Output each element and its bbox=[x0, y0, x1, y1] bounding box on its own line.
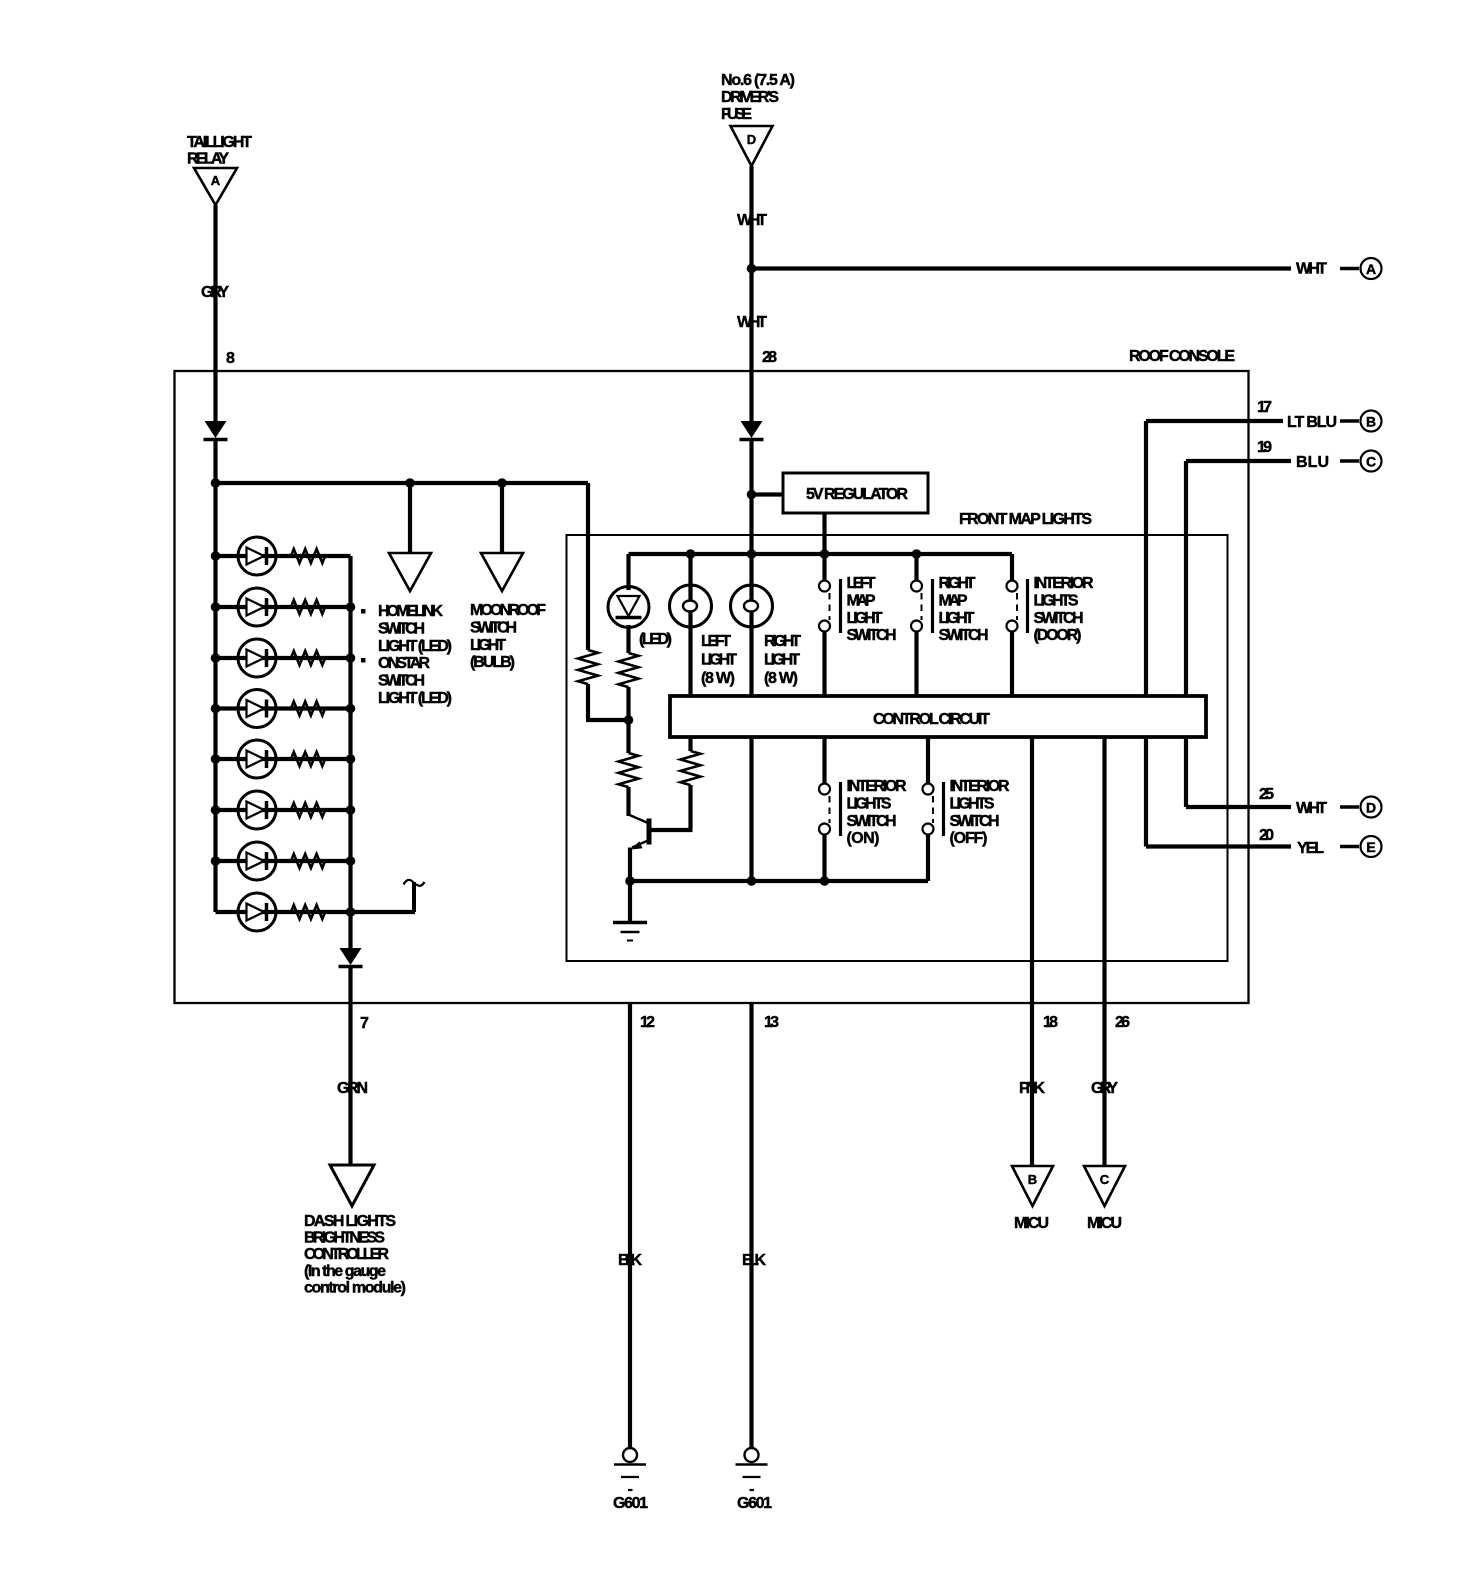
junction right column row 4 bbox=[346, 704, 356, 714]
svg-text:No.6 (7.5 A): No.6 (7.5 A) bbox=[721, 72, 795, 89]
wire resistor to junction bbox=[626, 687, 630, 753]
MICU label B bbox=[1014, 1215, 1049, 1232]
diode above pin 7 bbox=[339, 948, 363, 967]
wire label GRY 26 bbox=[1091, 1080, 1118, 1097]
svg-text:28: 28 bbox=[762, 349, 777, 366]
connector B to MICU bbox=[1012, 1166, 1053, 1206]
svg-text:RELAY: RELAY bbox=[187, 151, 229, 168]
junction emitter/ground bbox=[625, 876, 635, 886]
connector circle A bbox=[1340, 258, 1382, 279]
svg-text:LIGHT: LIGHT bbox=[847, 610, 883, 627]
resistor under LED bbox=[619, 653, 639, 687]
svg-text:20: 20 bbox=[1259, 827, 1274, 844]
wire label YEL bbox=[1297, 840, 1324, 857]
wire A horizontal WHT bbox=[752, 266, 1292, 270]
wire BLK pin 12 to G601 bbox=[628, 1003, 632, 1448]
ground G601 right bbox=[736, 1448, 768, 1490]
svg-text:BLU: BLU bbox=[1296, 454, 1329, 471]
resistor left bulb branch bbox=[681, 751, 701, 785]
LED row 3 wire bbox=[216, 656, 351, 660]
resistor row 7 bbox=[291, 854, 325, 868]
wire WHT fuse down to roof console pin 28 bbox=[749, 166, 753, 422]
wire C horizontal BLU bbox=[1186, 459, 1291, 463]
svg-text:18: 18 bbox=[1043, 1014, 1058, 1031]
junction left column row 7 bbox=[211, 856, 221, 866]
wire ON switch to bus bbox=[822, 835, 826, 882]
interior lights switch door label bbox=[1034, 575, 1094, 644]
junction fuse wire / wire A bbox=[747, 264, 757, 274]
svg-text:8: 8 bbox=[226, 350, 235, 367]
svg-text:MICU: MICU bbox=[1014, 1215, 1049, 1232]
pin 12 label bbox=[640, 1014, 655, 1031]
svg-text:E: E bbox=[1366, 839, 1375, 855]
homelink switch light connector triangle bbox=[389, 553, 431, 591]
LED 4 bbox=[238, 690, 276, 728]
wire C/D vertical bbox=[1184, 461, 1188, 807]
G601 label right bbox=[737, 1495, 772, 1512]
svg-text:ONSTAR: ONSTAR bbox=[378, 655, 430, 672]
svg-text:19: 19 bbox=[1257, 439, 1272, 456]
svg-text:WHT: WHT bbox=[1296, 261, 1327, 278]
wire regulator to bus bbox=[822, 513, 826, 554]
connector circle B bbox=[1340, 411, 1382, 432]
svg-text:GRN: GRN bbox=[337, 1080, 368, 1097]
LED row 4 wire bbox=[216, 706, 351, 710]
driver's fuse label bbox=[721, 72, 795, 123]
interior LED symbol bbox=[608, 587, 649, 628]
wire OFF switch column bbox=[926, 737, 930, 881]
LED row 8 wire bbox=[216, 910, 416, 914]
svg-text:(8 W): (8 W) bbox=[701, 670, 735, 687]
connector circle D bbox=[1340, 797, 1382, 818]
svg-text:17: 17 bbox=[1257, 399, 1272, 416]
wire label GRY bbox=[201, 284, 229, 301]
svg-text:SWITCH: SWITCH bbox=[1034, 610, 1084, 627]
wire LED to resistor bbox=[626, 625, 630, 653]
pin 13 label bbox=[764, 1014, 779, 1031]
right map light switch label bbox=[939, 575, 989, 644]
svg-text:SWITCH: SWITCH bbox=[950, 813, 1000, 830]
wire BLK pin 13 to G601 bbox=[749, 1003, 753, 1448]
junction left column row 2 bbox=[211, 602, 221, 612]
wire left bulb branch bbox=[688, 554, 692, 751]
LED 2 bbox=[238, 588, 276, 626]
left bulb symbol bbox=[670, 585, 712, 627]
ground G601 left bbox=[614, 1448, 646, 1490]
moonroof switch light label bbox=[470, 602, 546, 671]
left light label bbox=[701, 633, 737, 687]
wire fuse diode to front map bus bbox=[749, 441, 753, 554]
wire B/E vertical bbox=[1144, 421, 1148, 847]
junction moonroof tap bbox=[497, 478, 507, 488]
svg-text:B: B bbox=[1366, 414, 1376, 430]
junction left column row 3 bbox=[211, 653, 221, 663]
LED row 5 wire bbox=[216, 757, 351, 761]
svg-text:LIGHTS: LIGHTS bbox=[1034, 592, 1079, 609]
pin 17 label bbox=[1257, 399, 1272, 416]
svg-text:LEFT: LEFT bbox=[847, 575, 876, 592]
right light label bbox=[764, 633, 801, 687]
wire to moonroof connector bbox=[500, 483, 504, 553]
bullet onstar bbox=[361, 658, 366, 663]
wire left map switch / ON switch column bbox=[822, 554, 826, 784]
transistor Q1 base bar bbox=[647, 819, 652, 845]
wire right map switch bbox=[914, 554, 918, 697]
wire label BLK 12 bbox=[618, 1252, 642, 1269]
junction right column row 8 bbox=[346, 907, 356, 917]
svg-text:A: A bbox=[1366, 261, 1376, 277]
pin 26 label bbox=[1115, 1014, 1130, 1031]
right LED column wire bbox=[348, 556, 352, 948]
svg-text:TAILLIGHT: TAILLIGHT bbox=[187, 134, 252, 151]
svg-text:CONTROLLER: CONTROLLER bbox=[304, 1246, 389, 1263]
junction right column row 2 bbox=[346, 602, 356, 612]
left map light switch contacts bbox=[819, 579, 841, 633]
wire right bulb branch bbox=[749, 554, 753, 881]
junction right bulb tap bbox=[747, 549, 757, 559]
ground inside roof console bbox=[613, 923, 647, 941]
hook option connector bbox=[404, 880, 425, 912]
svg-text:SWITCH: SWITCH bbox=[847, 627, 897, 644]
resistor row 4 bbox=[291, 702, 325, 716]
junction LED branch bbox=[624, 715, 634, 725]
svg-text:ROOF CONSOLE: ROOF CONSOLE bbox=[1129, 348, 1235, 365]
onstar switch light label bbox=[378, 655, 452, 707]
svg-text:13: 13 bbox=[764, 1014, 779, 1031]
wire B horizontal LT BLU bbox=[1146, 419, 1283, 423]
svg-text:PNK: PNK bbox=[1019, 1080, 1045, 1097]
MICU label C bbox=[1087, 1215, 1122, 1232]
svg-text:WHT: WHT bbox=[737, 314, 767, 331]
svg-text:12: 12 bbox=[640, 1014, 655, 1031]
wire label WHT bbox=[737, 212, 767, 229]
wire to homelink connector bbox=[408, 483, 412, 553]
transistor Q1 emitter bbox=[632, 841, 649, 850]
LED 6 bbox=[238, 791, 276, 829]
svg-text:RIGHT: RIGHT bbox=[764, 633, 801, 650]
svg-text:B: B bbox=[1028, 1172, 1037, 1187]
interior OFF switch contacts bbox=[923, 782, 944, 836]
svg-text:INTERIOR: INTERIOR bbox=[950, 778, 1010, 795]
svg-text:LIGHT (LED): LIGHT (LED) bbox=[378, 690, 452, 707]
svg-text:SWITCH: SWITCH bbox=[378, 673, 425, 690]
svg-text:MAP: MAP bbox=[939, 592, 968, 609]
connector circle E bbox=[1340, 836, 1382, 857]
pin 18 label bbox=[1043, 1014, 1058, 1031]
right map light switch contacts bbox=[911, 579, 933, 633]
interior ON switch contacts bbox=[819, 782, 841, 836]
interior lights door switch contacts bbox=[1007, 579, 1028, 633]
roof console box bbox=[175, 371, 1249, 1003]
svg-text:control module): control module) bbox=[304, 1279, 406, 1296]
LED 3 bbox=[238, 639, 276, 677]
pin 7 label bbox=[360, 1015, 369, 1032]
svg-text:GRY: GRY bbox=[201, 284, 229, 301]
svg-text:LIGHTS: LIGHTS bbox=[950, 795, 995, 812]
pin 28 label bbox=[762, 349, 777, 366]
control circuit box bbox=[670, 696, 1206, 737]
svg-text:GRY: GRY bbox=[1091, 1080, 1118, 1097]
resistor parallel bbox=[578, 650, 598, 684]
junction right column row 3 bbox=[346, 653, 356, 663]
junction regulator tap bbox=[747, 490, 757, 500]
wire label WHT lower bbox=[737, 314, 767, 331]
wire D horizontal WHT bbox=[1186, 805, 1291, 809]
svg-text:SWITCH: SWITCH bbox=[470, 619, 517, 636]
svg-text:C: C bbox=[1366, 454, 1376, 470]
junction right column row 5 bbox=[346, 754, 356, 764]
LED row 1 wire bbox=[216, 554, 351, 558]
LED 1 bbox=[238, 537, 276, 575]
transistor Q1 collector bbox=[630, 815, 649, 823]
wire label WHT D bbox=[1296, 800, 1327, 817]
svg-text:RIGHT: RIGHT bbox=[939, 575, 976, 592]
svg-text:SWITCH: SWITCH bbox=[378, 620, 425, 637]
front map top bus bbox=[629, 552, 1013, 556]
svg-text:25: 25 bbox=[1259, 786, 1274, 803]
roof console label bbox=[1129, 348, 1235, 365]
svg-text:FRONT MAP LIGHTS: FRONT MAP LIGHTS bbox=[959, 511, 1092, 528]
wire bus to interior LED bbox=[626, 554, 630, 590]
svg-text:C: C bbox=[1100, 1172, 1110, 1187]
svg-text:BLK: BLK bbox=[742, 1252, 766, 1269]
svg-text:LIGHT: LIGHT bbox=[701, 652, 737, 669]
wire GRY taillight relay to roof console pin 8 bbox=[213, 205, 217, 422]
left LED column wire bbox=[213, 441, 217, 912]
svg-text:SWITCH: SWITCH bbox=[847, 813, 897, 830]
left map light switch label bbox=[847, 575, 897, 644]
pin 8 label bbox=[226, 350, 235, 367]
junction left bulb tap bbox=[686, 549, 696, 559]
svg-text:LIGHT (LED): LIGHT (LED) bbox=[378, 638, 452, 655]
wire PNK pin 18 to MICU bbox=[1030, 737, 1034, 1166]
svg-text:BRIGHTNESS: BRIGHTNESS bbox=[304, 1230, 385, 1247]
junction left column row 4 bbox=[211, 704, 221, 714]
wire E horizontal YEL bbox=[1146, 844, 1291, 848]
svg-text:YEL: YEL bbox=[1297, 840, 1324, 857]
junction left map switch tap bbox=[820, 549, 830, 559]
svg-text:G601: G601 bbox=[613, 1495, 648, 1512]
interior lights switch off label bbox=[950, 778, 1010, 847]
resistor row 5 bbox=[291, 752, 325, 766]
right bulb symbol bbox=[731, 585, 773, 627]
LED 5 bbox=[238, 740, 276, 778]
junction left column row 1 bbox=[211, 551, 221, 561]
svg-text:(OFF): (OFF) bbox=[950, 830, 988, 847]
LED row 6 wire bbox=[216, 808, 351, 812]
svg-text:INTERIOR: INTERIOR bbox=[1034, 575, 1094, 592]
pin 20 label bbox=[1259, 827, 1274, 844]
wire to transistor base bbox=[651, 785, 693, 830]
connector circle C bbox=[1340, 451, 1382, 472]
LED row 7 wire bbox=[216, 859, 351, 863]
svg-text:(BULB): (BULB) bbox=[470, 654, 515, 671]
front map lights box bbox=[567, 535, 1228, 961]
svg-text:5V REGULATOR: 5V REGULATOR bbox=[806, 486, 908, 503]
svg-text:WHT: WHT bbox=[737, 212, 767, 229]
svg-text:MOONROOF: MOONROOF bbox=[470, 602, 546, 619]
junction left column row 6 bbox=[211, 805, 221, 815]
svg-text:INTERIOR: INTERIOR bbox=[847, 778, 907, 795]
resistor row 8 bbox=[291, 905, 325, 919]
wire interior door switch bbox=[1010, 554, 1014, 697]
svg-text:LIGHT: LIGHT bbox=[939, 610, 975, 627]
left parallel resistor branch wire upper bbox=[586, 483, 590, 650]
wire label WHT right bbox=[1296, 261, 1327, 278]
junction right bulb bottom bbox=[747, 876, 757, 886]
svg-text:HOMELINK: HOMELINK bbox=[378, 603, 443, 620]
resistor above transistor bbox=[619, 753, 639, 787]
connector C to MICU bbox=[1084, 1166, 1125, 1206]
homelink switch light label bbox=[378, 603, 452, 655]
resistor row 2 bbox=[291, 600, 325, 614]
wire label LT BLU bbox=[1287, 414, 1337, 431]
taillight relay label bbox=[187, 134, 252, 168]
G601 label left bbox=[613, 1495, 648, 1512]
bullet homelink bbox=[361, 609, 366, 614]
wire bus to ground bbox=[628, 881, 632, 921]
LED label bbox=[639, 631, 672, 648]
svg-text:WHT: WHT bbox=[1296, 800, 1327, 817]
diode at pin 8 bbox=[204, 421, 228, 440]
junction right column row 7 bbox=[346, 856, 356, 866]
svg-text:DRIVER'S: DRIVER'S bbox=[721, 89, 779, 106]
LED 7 bbox=[238, 842, 276, 880]
svg-text:(ON): (ON) bbox=[847, 830, 880, 847]
svg-text:LEFT: LEFT bbox=[701, 633, 731, 650]
svg-text:G601: G601 bbox=[737, 1495, 772, 1512]
pin 19 label bbox=[1257, 439, 1272, 456]
wire resistor to collector bbox=[626, 787, 630, 816]
wire label BLK 13 bbox=[742, 1252, 766, 1269]
svg-text:DASH LIGHTS: DASH LIGHTS bbox=[304, 1213, 396, 1230]
front map lights label bbox=[959, 511, 1092, 528]
dash lights brightness controller label bbox=[304, 1213, 406, 1296]
wire tap to 5V regulator bbox=[752, 492, 784, 496]
svg-text:D: D bbox=[1366, 800, 1376, 816]
wire label PNK bbox=[1019, 1080, 1045, 1097]
wire GRN pin 7 to dash lights controller bbox=[348, 968, 352, 1165]
wire label BLU bbox=[1296, 454, 1329, 471]
svg-text:(LED): (LED) bbox=[639, 631, 672, 648]
pin 25 label bbox=[1259, 786, 1274, 803]
wire label GRN bbox=[337, 1080, 368, 1097]
svg-text:FUSE: FUSE bbox=[721, 106, 752, 123]
svg-text:7: 7 bbox=[360, 1015, 369, 1032]
svg-text:MAP: MAP bbox=[847, 592, 876, 609]
LED 8 bbox=[238, 893, 276, 931]
svg-text:(8 W): (8 W) bbox=[764, 670, 798, 687]
svg-text:MICU: MICU bbox=[1087, 1215, 1122, 1232]
resistor row 1 bbox=[291, 549, 325, 563]
resistor row 3 bbox=[291, 651, 325, 665]
svg-text:A: A bbox=[211, 173, 221, 188]
junction ON switch bottom bbox=[820, 876, 830, 886]
LED row 2 wire bbox=[216, 605, 351, 609]
front map bottom bus bbox=[630, 879, 928, 883]
wire GRY pin 26 to MICU bbox=[1102, 737, 1106, 1166]
svg-text:D: D bbox=[747, 132, 756, 147]
wire emitter to ground bus bbox=[628, 848, 632, 882]
svg-text:(In the gauge: (In the gauge bbox=[304, 1263, 386, 1280]
svg-text:BLK: BLK bbox=[618, 1252, 642, 1269]
5V regulator box bbox=[783, 473, 928, 513]
connector D from driver's fuse bbox=[731, 126, 773, 166]
junction homelink tap bbox=[405, 478, 415, 488]
junction right map switch tap bbox=[912, 549, 922, 559]
svg-text:LIGHTS: LIGHTS bbox=[847, 795, 892, 812]
svg-text:LT BLU: LT BLU bbox=[1287, 414, 1337, 431]
wire parallel resistor lower bbox=[586, 684, 629, 720]
junction pin8/bus bbox=[211, 478, 221, 488]
svg-text:26: 26 bbox=[1115, 1014, 1130, 1031]
diode at pin 28 bbox=[740, 421, 764, 440]
resistor row 6 bbox=[291, 803, 325, 817]
junction left column row 5 bbox=[211, 754, 221, 764]
svg-text:LIGHT: LIGHT bbox=[764, 652, 800, 669]
junction right column row 6 bbox=[346, 805, 356, 815]
svg-text:SWITCH: SWITCH bbox=[939, 627, 989, 644]
svg-text:(DOOR): (DOOR) bbox=[1034, 627, 1082, 644]
bus wire to switch-light connectors bbox=[216, 481, 589, 485]
dash lights controller connector triangle bbox=[330, 1165, 374, 1206]
interior lights switch on label bbox=[847, 778, 907, 847]
svg-text:LIGHT: LIGHT bbox=[470, 637, 506, 654]
svg-text:CONTROL CIRCUIT: CONTROL CIRCUIT bbox=[873, 711, 990, 728]
connector A from taillight relay bbox=[194, 168, 237, 205]
moonroof switch light connector triangle bbox=[481, 553, 523, 591]
